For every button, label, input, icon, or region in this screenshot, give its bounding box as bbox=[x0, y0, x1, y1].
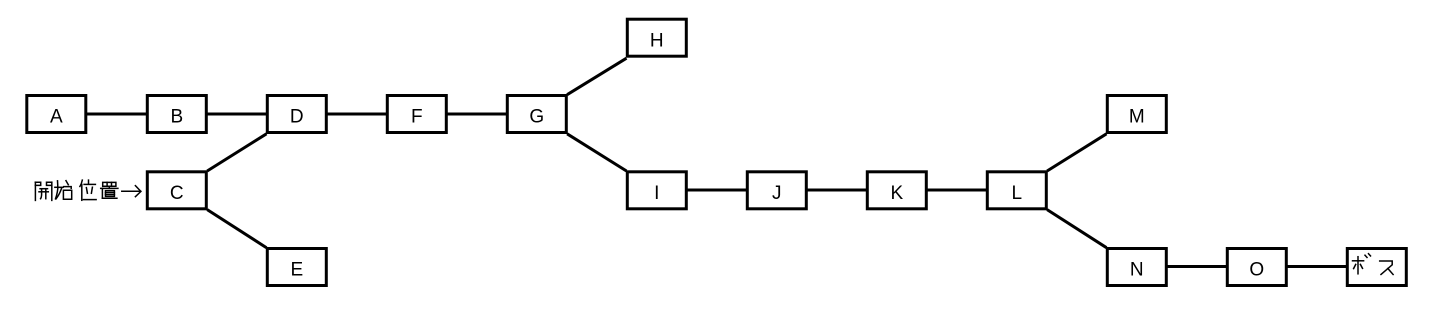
svg-text:E: E bbox=[290, 260, 303, 281]
svg-text:A: A bbox=[50, 107, 63, 128]
svg-text:F: F bbox=[411, 107, 423, 128]
svg-text:L: L bbox=[1012, 183, 1023, 204]
svg-text:B: B bbox=[170, 107, 183, 128]
svg-text:M: M bbox=[1129, 107, 1145, 128]
svg-text:O: O bbox=[1249, 260, 1264, 281]
svg-text:J: J bbox=[772, 183, 782, 204]
svg-text:N: N bbox=[1130, 260, 1144, 281]
svg-text:H: H bbox=[650, 30, 664, 51]
svg-text:I: I bbox=[654, 183, 659, 204]
svg-text:G: G bbox=[529, 107, 544, 128]
svg-text:C: C bbox=[170, 183, 184, 204]
svg-text:K: K bbox=[890, 183, 903, 204]
svg-text:D: D bbox=[290, 107, 304, 128]
